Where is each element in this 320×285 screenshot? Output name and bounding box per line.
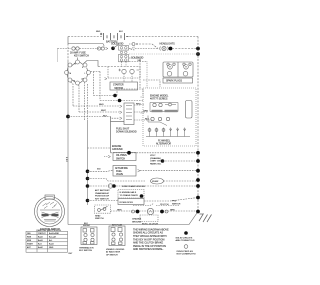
wire: battery cable from rosette xyxy=(84,61,99,67)
wire: pump to bus xyxy=(164,180,199,181)
svg-text:CIRCUIT: CIRCUIT xyxy=(38,233,47,235)
chassis ground hatch xyxy=(199,214,212,223)
junction dot bus y161 xyxy=(196,159,200,163)
junction dot bus y171 xyxy=(196,169,200,173)
starter circuit dashed box xyxy=(98,66,140,68)
svg-text:VOLT: VOLT xyxy=(150,155,156,157)
wire: battery positive dashed to left bus xyxy=(68,36,103,38)
svg-text:GROUND: GROUND xyxy=(112,148,123,151)
junction dot kill row xyxy=(113,94,117,98)
wire: drop x73 xyxy=(71,82,74,106)
svg-text:SOLID CIRCLES: SOLID CIRCLES xyxy=(176,237,193,239)
svg-text:MOTOR: MOTOR xyxy=(115,88,124,90)
junction dot at solenoid input xyxy=(111,47,115,51)
starter motor box M1 xyxy=(110,82,138,90)
svg-text:AT BACK SIDE: AT BACK SIDE xyxy=(106,251,121,254)
svg-text:BLK: BLK xyxy=(119,31,123,33)
svg-text:PUMP: PUMP xyxy=(152,181,159,183)
engine alternator bus xyxy=(146,136,190,138)
wire: battery to right bus xyxy=(126,36,198,38)
wire: row into chevron 3 xyxy=(68,117,120,119)
engine alternator diodes xyxy=(150,128,164,137)
legend open circle xyxy=(184,245,188,249)
wire: long row y186 xyxy=(88,185,199,187)
wire: afterfire to bus xyxy=(140,170,198,172)
wire: drop x87.5 xyxy=(87,84,89,120)
svg-text:SPARK PLUGS: SPARK PLUGS xyxy=(166,80,183,83)
wire: row y200 xyxy=(88,200,119,202)
chevron right afterfire xyxy=(138,169,141,172)
starter box chevron xyxy=(105,78,108,80)
svg-text:SWITCH: SWITCH xyxy=(172,203,181,205)
junction dot y186 mid xyxy=(112,184,116,188)
starter solenoid K1 xyxy=(119,46,129,62)
right bus wire xyxy=(197,37,199,212)
svg-text:407777 SERIES: 407777 SERIES xyxy=(150,97,168,100)
wire: branch to equipment frame xyxy=(88,147,111,149)
wire: drop x100 xyxy=(99,72,101,101)
svg-text:B+A1: B+A1 xyxy=(38,239,43,242)
wire: headlight to right bus xyxy=(172,48,198,50)
clutch connector circle 2 xyxy=(165,210,168,213)
svg-text:RUN: RUN xyxy=(27,240,32,242)
svg-text:FUEL: FUEL xyxy=(116,171,123,173)
wire: row y161 to bus xyxy=(163,160,199,162)
fuel pump oval xyxy=(151,178,164,184)
svg-text:KEY SWITCH: KEY SWITCH xyxy=(95,198,109,200)
wire: left bracket corner xyxy=(67,37,69,44)
svg-text:B+A1: B+A1 xyxy=(49,243,54,246)
svg-text:POSITION OF: POSITION OF xyxy=(95,196,110,198)
wire: spark feed xyxy=(143,80,160,87)
svg-text:B+A2: B+A2 xyxy=(38,246,43,249)
svg-text:AFTERFIRE: AFTERFIRE xyxy=(115,167,128,170)
svg-text:FUSE 20 AMP. HOLDER: FUSE 20 AMP. HOLDER xyxy=(122,185,145,188)
wire: magneto kill row xyxy=(94,95,118,97)
svg-text:PANEL BD.: PANEL BD. xyxy=(150,162,162,165)
key position table xyxy=(26,231,68,252)
note box lower xyxy=(118,199,144,205)
svg-text:KEY SWITCH: KEY SWITCH xyxy=(79,250,92,252)
wire: drop x79 xyxy=(78,85,81,112)
junction dot x87 y186 xyxy=(86,184,90,188)
junction dot bus y186 xyxy=(196,184,200,188)
clutch connector circle 1 xyxy=(132,210,135,213)
seat switch dashed box xyxy=(95,205,111,213)
legend filled dot xyxy=(184,231,188,235)
starter terminals xyxy=(122,69,126,73)
spark plugs assembly xyxy=(163,62,193,77)
svg-text:VALVE: VALVE xyxy=(116,173,124,176)
svg-text:B+A1: B+A1 xyxy=(38,236,43,239)
wire: bottom ground run xyxy=(68,212,198,225)
fuse F1 row xyxy=(58,48,72,50)
junction dot left bus xyxy=(66,115,70,119)
svg-text:GND: GND xyxy=(49,247,54,249)
svg-text:FRONT: FRONT xyxy=(83,225,91,227)
wire: fuel pump row xyxy=(88,179,146,182)
switch blade diagonal xyxy=(113,45,119,49)
chevron left box B xyxy=(108,155,111,158)
svg-text:B+A1+GND: B+A1+GND xyxy=(49,232,60,235)
svg-text:(CHARGE): (CHARGE) xyxy=(150,157,161,160)
svg-text:ORN: ORN xyxy=(143,110,148,112)
svg-text:DOWN SOLENOID: DOWN SOLENOID xyxy=(116,131,137,134)
key detail hatches xyxy=(43,202,58,209)
svg-text:NOT CONNECTED: NOT CONNECTED xyxy=(177,254,196,256)
engine circles row2 xyxy=(151,117,154,120)
headlight lamp xyxy=(159,47,162,51)
wire: solenoid to headlight row xyxy=(129,43,132,45)
wire: engine feed vertical 1 xyxy=(139,58,141,88)
junction dot y211 left xyxy=(136,210,140,214)
svg-text:START: START xyxy=(27,243,34,246)
svg-text:PTO: PTO xyxy=(172,201,177,203)
battery B1 xyxy=(100,33,129,40)
paragraph note text xyxy=(133,228,169,251)
svg-text:BLK: BLK xyxy=(145,118,150,120)
wire: solenoid output row xyxy=(129,57,140,59)
svg-text:ATC BATTERY: ATC BATTERY xyxy=(95,189,110,192)
oil pressure switch box B xyxy=(113,153,136,161)
wire: drop x84.5 xyxy=(84,82,86,120)
wire: drop x93.5 xyxy=(93,72,95,96)
svg-text:B+L+A2: B+L+A2 xyxy=(49,236,56,239)
wire: battery negative cable xyxy=(68,44,104,47)
wire: kill bracket xyxy=(117,89,143,96)
svg-text:OIL PRES.: OIL PRES. xyxy=(116,155,128,157)
inline connector circle y186 xyxy=(108,184,112,188)
ignition switch rosette xyxy=(67,62,88,83)
engine dark band xyxy=(152,110,163,112)
junction dot headlight xyxy=(169,47,173,51)
junction dot x87 y172 xyxy=(86,170,90,174)
wire: rosette right terminal east xyxy=(91,71,101,73)
svg-text:ALTERNATOR: ALTERNATOR xyxy=(156,143,171,146)
junction dot y211 right xyxy=(160,210,164,214)
junction dot white row xyxy=(118,99,122,103)
svg-text:AND SWITCHES NORMAL.: AND SWITCHES NORMAL. xyxy=(133,248,164,251)
svg-text:ACC: ACC xyxy=(27,246,32,249)
wire: starter drops xyxy=(124,74,132,82)
wire: row into chevron 1 xyxy=(73,105,120,107)
svg-text:SWITCH: SWITCH xyxy=(116,158,125,160)
key detail dark bars xyxy=(42,214,49,216)
svg-text:STARTER: STARTER xyxy=(113,84,124,87)
svg-text:INTERLOCKS: INTERLOCKS xyxy=(120,202,134,204)
svg-text:RED: RED xyxy=(96,31,101,33)
equipment frame solid lines xyxy=(110,117,112,153)
svg-text:GROUND: GROUND xyxy=(132,221,142,223)
svg-text:FLYWHEEL: FLYWHEEL xyxy=(158,141,171,143)
svg-text:GRN: GRN xyxy=(170,210,175,212)
left bus wire (vertical, full height) xyxy=(67,44,69,61)
svg-text:KEY SWITCH: KEY SWITCH xyxy=(74,55,89,58)
ignition switch detail (bottom-left) xyxy=(35,197,65,227)
svg-text:RED: RED xyxy=(136,103,141,105)
table cell text xyxy=(27,232,60,249)
rosette top stub xyxy=(77,58,79,61)
wire: into afterfire xyxy=(88,170,114,173)
svg-text:HEADLIGHTS: HEADLIGHTS xyxy=(160,43,176,46)
wire: module to bus xyxy=(144,198,198,202)
engine internal cluster xyxy=(150,103,178,112)
wire: clutch row y211.5 xyxy=(111,210,199,212)
svg-text:OPEN CIRCLES: OPEN CIRCLES xyxy=(177,251,194,253)
wire: solenoid to starter box stubs xyxy=(121,62,126,67)
short left drop xyxy=(57,49,59,63)
svg-text:KEY PLUG: KEY PLUG xyxy=(112,225,122,227)
spark plugs label box xyxy=(163,78,193,83)
wire: lamp feed row xyxy=(129,47,158,50)
wire: dotted accessory row xyxy=(129,53,198,55)
clutch lower dashed box xyxy=(140,215,158,222)
svg-text:CLUTCH: CLUTCH xyxy=(160,204,169,206)
wire: connector outputs right xyxy=(134,104,141,106)
connector B (harness plug) xyxy=(109,226,125,246)
junction dot right bus top2 xyxy=(196,52,200,56)
svg-text:TERMINALS IN: TERMINALS IN xyxy=(79,246,94,249)
junction dot regulator xyxy=(161,159,165,163)
svg-text:SWITCH: SWITCH xyxy=(95,218,104,220)
wire: row y153 to bus xyxy=(111,152,199,154)
clutch upper dashes xyxy=(133,204,180,206)
svg-text:5 3 0: 5 3 0 xyxy=(65,157,67,163)
junction dot x87 y178.5 xyxy=(86,177,90,181)
engine left edge entry ticks xyxy=(141,97,145,113)
connector A (front plug) xyxy=(81,227,97,245)
svg-text:L: L xyxy=(85,73,86,75)
junction dot note box xyxy=(140,194,144,198)
svg-text:IF ENGINE FAILS: IF ENGINE FAILS xyxy=(120,191,137,194)
svg-text:SEAT: SEAT xyxy=(95,214,101,217)
svg-text:OF SWITCH: OF SWITCH xyxy=(106,254,118,256)
engine box (dotted) xyxy=(143,88,196,146)
svg-text:IGNITION SWITCH POS.: IGNITION SWITCH POS. xyxy=(37,230,62,232)
junction dot box B top xyxy=(127,151,131,155)
junction dot bus y180 xyxy=(196,178,200,182)
junction dot x87 y200.5 xyxy=(86,199,90,203)
svg-text:TO CRANK CHECK: TO CRANK CHECK xyxy=(120,194,139,197)
afterfire solenoid box xyxy=(113,166,136,177)
wire: white row to engine xyxy=(100,100,143,102)
engine oil sensor rect xyxy=(186,101,193,119)
rosette terminal letters xyxy=(70,64,86,83)
junction dot bus y197 xyxy=(196,196,200,200)
clutch motor circle xyxy=(147,208,153,214)
svg-text:VIEWED LOOKING: VIEWED LOOKING xyxy=(106,249,125,251)
wire: engine feed vertical 2 xyxy=(146,62,148,89)
junction dot bus y153 xyxy=(196,151,200,155)
wire: solenoid lower row xyxy=(129,61,147,63)
svg-text:ELEC. CLUTCH: ELEC. CLUTCH xyxy=(142,224,158,226)
svg-text:A1: A1 xyxy=(82,78,84,81)
svg-text:CHARGER AT: CHARGER AT xyxy=(95,192,110,195)
interlock connector J2 xyxy=(124,103,134,125)
connector chevrons xyxy=(120,105,123,120)
svg-text:LIGHT ON: LIGHT ON xyxy=(150,161,161,163)
svg-text:CHASSIS: CHASSIS xyxy=(132,218,142,221)
junction dot bus end xyxy=(196,210,200,214)
fuse connector circles xyxy=(72,47,75,50)
note box upper (dashed) xyxy=(118,190,144,199)
junction dot right bus top1 xyxy=(196,47,200,51)
svg-text:ARE CONNECTED: ARE CONNECTED xyxy=(176,239,195,242)
svg-text:B+L: B+L xyxy=(49,240,52,242)
wire: row into chevron 2 xyxy=(79,111,120,113)
svg-text:RUN: RUN xyxy=(27,237,32,239)
